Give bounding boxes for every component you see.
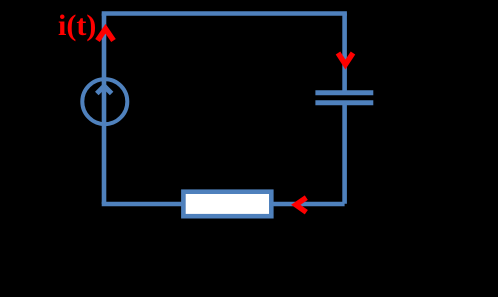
current direction arrow: up chevron at top-left	[98, 29, 114, 41]
capacitor C1: bottom plate	[315, 100, 373, 105]
svg-text:i(t): i(t)	[58, 9, 96, 42]
wire: right vertical lower segment (from capacitor bottom plate)	[342, 103, 347, 204]
resistor R1: white body	[183, 192, 271, 217]
current source I1: arrowhead (up)	[97, 86, 112, 94]
wire: top horizontal branch	[102, 11, 347, 16]
current direction arrow: down chevron on right branch	[338, 53, 353, 65]
capacitor C1: top plate	[315, 90, 373, 95]
wire: right vertical upper segment (to capacitor top plate)	[342, 14, 347, 93]
current direction arrow: left chevron on bottom branch	[296, 198, 307, 213]
wire: left vertical branch	[102, 14, 107, 205]
wire: bottom horizontal branch	[102, 202, 345, 207]
current source I1: circle	[82, 79, 127, 124]
